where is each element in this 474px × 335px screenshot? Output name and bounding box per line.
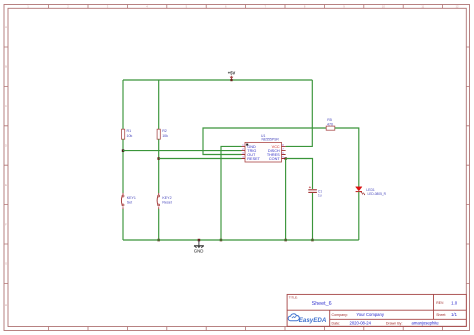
wire LED to rail xyxy=(358,192,360,240)
svg-text:KEY1: KEY1 xyxy=(127,196,136,200)
svg-text:A: A xyxy=(5,25,7,29)
svg-text:C: C xyxy=(5,104,7,108)
title block texts xyxy=(289,296,458,326)
node junction GND/rail xyxy=(220,239,223,242)
svg-text:B: B xyxy=(5,65,7,69)
svg-text:TITLE:: TITLE: xyxy=(289,296,298,300)
node junction CONT/rail xyxy=(284,239,287,242)
svg-text:10: 10 xyxy=(382,4,385,8)
svg-text:1u: 1u xyxy=(318,193,322,197)
svg-text:RESET: RESET xyxy=(247,157,260,161)
svg-text:H: H xyxy=(5,303,7,307)
resistor R5 xyxy=(326,118,335,130)
svg-text:Your Company: Your Company xyxy=(356,312,384,317)
svg-text:REV:: REV: xyxy=(436,301,444,305)
node junction KEY2/rail xyxy=(157,239,160,242)
svg-text:G: G xyxy=(5,262,7,266)
svg-text:12: 12 xyxy=(456,4,459,8)
wire below KEY2 xyxy=(158,209,160,240)
wire second branch x=158.7 upper xyxy=(158,80,160,129)
key KEY2 xyxy=(157,193,172,209)
svg-text:Sheet_6: Sheet_6 xyxy=(312,301,332,307)
wire R5 to LED column xyxy=(335,128,359,187)
svg-text:NE555PSR: NE555PSR xyxy=(262,138,280,142)
resistor R1 xyxy=(122,129,133,139)
LED LED1 xyxy=(356,187,387,196)
svg-text:Set: Set xyxy=(127,201,132,205)
svg-text:KEY2: KEY2 xyxy=(162,196,171,200)
svg-text:R1: R1 xyxy=(127,129,132,133)
svg-text:Reset: Reset xyxy=(162,201,171,205)
svg-text:Drawn By:: Drawn By: xyxy=(386,321,403,325)
svg-text:LED-0805_R: LED-0805_R xyxy=(368,192,387,196)
wire +5V top rail xyxy=(123,79,312,81)
EasyEDA logo xyxy=(288,314,327,324)
ground GND xyxy=(194,239,204,254)
node junction CONT pin xyxy=(284,157,287,160)
power +5V xyxy=(228,71,236,82)
wire VCC riser xyxy=(286,80,313,146)
node junction R1/TRIG xyxy=(122,149,125,152)
svg-text:2020-08-24: 2020-08-24 xyxy=(350,321,372,326)
svg-text:E: E xyxy=(5,183,7,187)
wire below R2 xyxy=(158,139,160,193)
IC U1 NE555 xyxy=(242,134,286,162)
svg-text:D: D xyxy=(5,144,7,148)
svg-text:EasyEDA: EasyEDA xyxy=(299,317,327,324)
title block xyxy=(287,294,466,326)
svg-text:+5V: +5V xyxy=(228,71,236,76)
wire C1 to rail xyxy=(312,193,314,240)
wire CONT down to rail xyxy=(285,159,287,241)
svg-text:Date:: Date: xyxy=(332,321,341,325)
wire bottom rail xyxy=(123,239,359,241)
wire below KEY1 xyxy=(122,209,124,240)
resistor R2 xyxy=(157,129,168,139)
svg-text:10k: 10k xyxy=(127,134,133,138)
svg-text:470: 470 xyxy=(327,122,333,126)
wire RESET xyxy=(159,158,242,160)
wire left branch x=123 upper xyxy=(122,80,124,129)
wire below R1 xyxy=(122,139,124,193)
key KEY1 xyxy=(121,193,136,209)
svg-text:amanjosephite: amanjosephite xyxy=(412,321,440,326)
svg-text:1.0: 1.0 xyxy=(451,300,458,305)
svg-text:R2: R2 xyxy=(162,129,167,133)
svg-text:1/1: 1/1 xyxy=(451,312,457,317)
capacitor C1 xyxy=(308,186,322,197)
svg-text:11: 11 xyxy=(421,4,424,8)
svg-text:GND: GND xyxy=(194,249,204,254)
wire OUT xyxy=(203,128,326,155)
svg-text:10k: 10k xyxy=(162,134,168,138)
wire GND pin to rail xyxy=(221,146,242,240)
svg-text:Company:: Company: xyxy=(332,313,348,317)
wire CONT to C1 xyxy=(286,159,313,190)
svg-text:CONT: CONT xyxy=(269,157,280,161)
svg-text:Sheet:: Sheet: xyxy=(436,313,446,317)
node junction C1/rail xyxy=(311,239,314,242)
wire TRIG xyxy=(123,150,242,152)
node junction R2/RESET xyxy=(157,157,160,160)
